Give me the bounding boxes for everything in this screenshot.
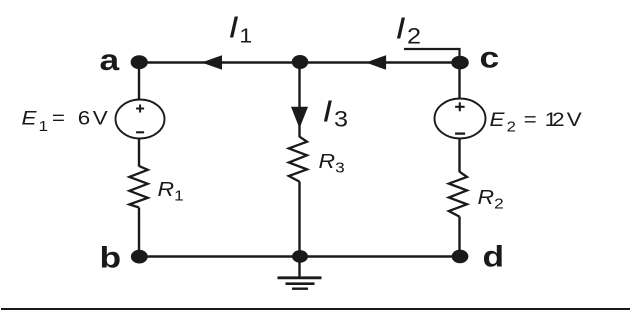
wire bottom b-d [139,255,460,257]
svg-text:R: R [478,185,495,208]
node c [451,56,469,70]
wire a to E1 top [138,63,140,101]
svg-text:6: 6 [78,108,90,129]
resistor R3 [289,137,307,182]
arrow I1 [202,55,223,70]
node label a [100,43,120,77]
svg-text:E: E [490,109,506,130]
svg-text:2: 2 [552,109,564,130]
E1 plus polarity mark [136,105,144,113]
svg-text:I: I [323,94,333,128]
node label c [480,40,500,74]
source E2 [435,99,486,139]
svg-text:R: R [158,177,175,200]
svg-text:1: 1 [39,118,49,135]
node junction bottom middle [292,250,308,263]
bottom rule [1,308,630,310]
node d [452,250,469,264]
svg-text:I: I [396,12,406,46]
wire E2 bottom to R2 top [458,139,460,173]
ground [278,257,322,289]
svg-text:2: 2 [407,25,421,49]
label R2 [478,185,504,212]
svg-text:V: V [567,109,582,130]
arrow I3 [291,107,308,129]
wire R2 bottom to d [458,217,460,257]
svg-text:3: 3 [334,108,348,132]
E1 minus polarity mark [136,131,144,133]
wire c to E2 top [458,63,460,100]
wire E1 bottom to R1 top [138,138,140,167]
wire mid node to R3 top [298,63,300,138]
arrow I2 [366,55,386,70]
node label b [100,240,122,274]
svg-text:1: 1 [239,24,252,47]
wire R1 bottom to b [138,208,140,257]
svg-text:2: 2 [494,196,504,213]
ground stub wire [298,257,300,278]
svg-text:d: d [483,239,505,273]
node b [131,250,148,264]
svg-text:1: 1 [174,188,184,205]
E2 minus polarity mark [455,132,465,134]
label I1 [229,11,253,48]
svg-text:3: 3 [335,160,345,177]
E2 circle outline [435,99,486,139]
node junction top middle [292,55,308,69]
label R1 [158,177,184,204]
svg-text:I: I [229,11,239,45]
svg-text:b: b [100,240,122,274]
resistor R2 [449,172,467,217]
svg-text:a: a [100,43,120,77]
E1 circle outline [116,100,165,139]
svg-text:2: 2 [507,119,516,135]
label I3 [323,94,349,132]
node label d [483,239,505,273]
svg-text:=: = [52,108,65,129]
svg-text:=: = [524,109,537,130]
svg-text:R: R [319,149,336,172]
svg-text:V: V [93,108,108,129]
ground bar 2 [286,282,315,285]
label R3 [319,149,345,176]
svg-text:c: c [480,40,500,74]
wire I2 hook at node c [404,49,460,63]
node a [131,55,148,69]
label I2 [396,12,422,49]
ground bar 1 [278,276,322,279]
E2 plus polarity mark [455,102,465,111]
label E1 = 6 V [22,108,108,135]
svg-text:E: E [22,108,38,129]
resistor R1 [129,166,147,208]
ground bar 3 [292,288,308,290]
wire top a-c [139,61,460,63]
source E1 [116,100,165,139]
wire R3 bottom to bottom node [298,182,300,257]
label E2 = 12 V [490,109,582,135]
